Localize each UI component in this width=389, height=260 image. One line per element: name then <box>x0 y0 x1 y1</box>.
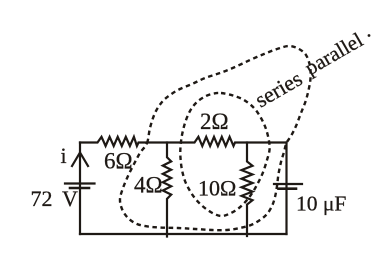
svg-text:parallel: parallel <box>301 27 368 79</box>
svg-text:10 μF: 10 μF <box>296 192 346 216</box>
svg-text:series: series <box>251 66 307 113</box>
svg-text:72: 72 <box>31 186 53 211</box>
svg-text:4Ω: 4Ω <box>134 173 163 198</box>
svg-text:6Ω: 6Ω <box>104 149 133 174</box>
svg-text:V: V <box>62 186 78 211</box>
svg-text:10Ω: 10Ω <box>198 176 236 201</box>
svg-text:i: i <box>61 143 67 168</box>
svg-text:2Ω: 2Ω <box>200 109 229 134</box>
